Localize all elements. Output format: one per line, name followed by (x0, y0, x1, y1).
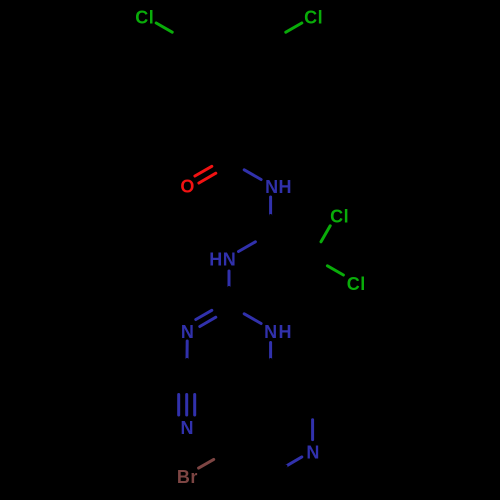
svg-text:N: N (223, 250, 236, 270)
svg-text:O: O (180, 177, 194, 197)
benzene ring bond C4-C5 (187, 17, 229, 41)
benzene ring bond C6-C1 (187, 89, 229, 113)
svg-text:r: r (190, 467, 197, 487)
svg-text:H: H (209, 250, 222, 270)
svg-text:N: N (181, 322, 194, 342)
atom label Br (177, 467, 198, 487)
benzene ring bond C2-C3 (269, 41, 272, 89)
svg-text:H: H (279, 322, 292, 342)
svg-text:l: l (318, 7, 323, 27)
bond HN-C2(amidine) (228, 271, 231, 305)
atom label NH (amide) (265, 177, 291, 197)
bond C5(ring1)-Cl substituent top-left (156, 23, 187, 41)
bond NH(amide)-CH central (269, 197, 272, 233)
svg-text:C: C (347, 274, 360, 294)
benzene ring bond C5-C6 (double) (187, 41, 195, 89)
bond C3(ring1)-Cl substituent top-right (271, 23, 302, 41)
atom label N (pyridine) (306, 442, 319, 462)
bond CHCl2-Cl lower (312, 257, 343, 275)
svg-text:B: B (177, 467, 190, 487)
svg-text:N: N (265, 177, 278, 197)
atom label N (imine) (181, 322, 194, 342)
svg-text:C: C (330, 207, 343, 227)
svg-text:l: l (344, 207, 349, 227)
atom label Cl (dichloromethyl upper) (330, 207, 349, 227)
triple bond C#N cyano (179, 377, 195, 415)
imine double bond C2=N (196, 302, 231, 327)
svg-text:N: N (264, 322, 277, 342)
atom label NH (guanidine lower) (264, 322, 291, 342)
bond CHCl2-Cl upper (312, 226, 330, 257)
atom label O (carbonyl) (180, 177, 194, 197)
atom label HN (guanidine) (209, 250, 235, 270)
atom label Cl (top left) (135, 7, 154, 27)
bond CH(central)-CHCl2 (271, 233, 313, 257)
svg-text:H: H (279, 177, 292, 197)
bond CH(central)-NH(guanidine) (239, 233, 271, 252)
pyridine ring bond C4-C5 (double) (271, 377, 313, 406)
svg-text:l: l (360, 274, 365, 294)
svg-text:N: N (306, 442, 319, 462)
bond C2-NH(lower) (229, 305, 261, 324)
bond N(imine)-C(cyano) (185, 341, 189, 377)
pyridine ring bond C6-C7 (229, 451, 271, 476)
double bond C=O carbonyl (195, 158, 231, 184)
svg-text:N: N (181, 418, 194, 438)
atom label N (cyano) (181, 418, 194, 438)
bond C7(pyridine)-Br (199, 451, 229, 469)
bond NH(lower)-C4(pyridine) (269, 343, 272, 378)
pyridine ring bond C5-N1 (311, 402, 314, 440)
pyridine ring bond N1-C6 (double) (271, 453, 302, 475)
pyridine ring bond C7-C8 (double) (229, 402, 237, 451)
svg-text:C: C (304, 7, 317, 27)
atom label Cl (top right) (304, 7, 323, 27)
svg-text:C: C (135, 7, 148, 27)
bond C1(ring1)-C(=O) carbonyl (228, 113, 231, 161)
pyridine ring bond C8-C4 (229, 377, 271, 402)
atom label Cl (dichloromethyl lower) (347, 274, 366, 294)
benzene ring bond C3-C4 (double) (229, 17, 271, 45)
benzene ring bond C1-C2 (double) (229, 85, 271, 113)
svg-text:l: l (149, 7, 154, 27)
amide bond C(=O)-NH (229, 161, 261, 180)
